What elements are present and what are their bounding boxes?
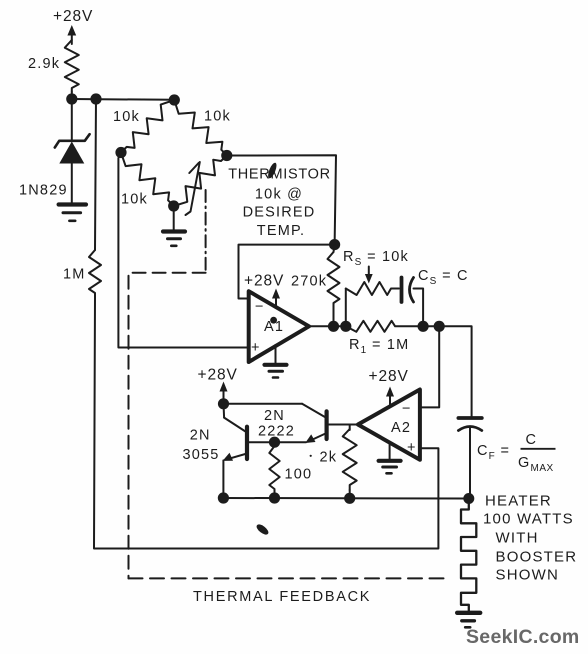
heater element bbox=[461, 499, 476, 612]
thermistor RT bridge bottom-right bbox=[174, 156, 227, 216]
wire node to zener bbox=[71, 99, 73, 141]
wire node down to A2 minus bbox=[420, 326, 439, 407]
resistor R1 1M bbox=[346, 321, 423, 332]
resistor R 2.9k bbox=[65, 40, 79, 92]
svg-text:10k: 10k bbox=[121, 192, 148, 208]
resistor 2k bbox=[343, 425, 357, 499]
svg-text:2N: 2N bbox=[264, 408, 285, 424]
node output line bbox=[434, 321, 445, 332]
transistor Q2 2N2222 bbox=[302, 404, 327, 443]
resistor bridge 10k top-left bbox=[121, 100, 174, 153]
bridge node left bbox=[115, 147, 126, 158]
capacitor Cs bbox=[402, 278, 424, 327]
node A1 output bbox=[328, 321, 339, 332]
op-amp A2 (left pointing) bbox=[358, 390, 420, 460]
ground below bridge bbox=[163, 206, 185, 246]
node rail left bbox=[218, 492, 229, 503]
dash-dot thermistor coupling line bbox=[205, 190, 207, 273]
ground below A1 bbox=[265, 345, 287, 378]
+28V arrow transistors bbox=[220, 382, 228, 404]
op-amp A2 +28V arrow bbox=[386, 387, 394, 408]
ink blob on THERMISTOR M bbox=[266, 162, 278, 180]
svg-text:+28V: +28V bbox=[369, 368, 409, 385]
wire up to Rs bbox=[345, 289, 347, 327]
wire bridge right node to node A bbox=[227, 155, 336, 244]
bridge node bottom bbox=[168, 200, 179, 211]
svg-text:100: 100 bbox=[285, 467, 313, 483]
svg-text:2N: 2N bbox=[190, 428, 211, 444]
node 100 top bbox=[269, 437, 280, 448]
wire 1M down to feedback run bbox=[94, 297, 438, 549]
supply +28V top arrow bbox=[67, 25, 76, 44]
bridge node top bbox=[169, 94, 180, 105]
svg-text:2.9k: 2.9k bbox=[28, 56, 60, 72]
bridge node right bbox=[221, 150, 232, 161]
svg-text:−: − bbox=[402, 401, 412, 417]
wire Q2 emitter to Q1 base bbox=[247, 441, 306, 443]
emitter rail wire bbox=[223, 497, 468, 500]
dashed thermal feedback bottom line bbox=[129, 577, 451, 579]
svg-text:WITH: WITH bbox=[496, 530, 539, 547]
svg-text:SeekIC.com: SeekIC.com bbox=[466, 626, 580, 648]
op-amp A1 +28V arrow bbox=[272, 289, 280, 309]
svg-text:HEATER: HEATER bbox=[485, 493, 552, 510]
op-amp A1 bbox=[249, 291, 309, 362]
svg-text:2k: 2k bbox=[320, 450, 338, 466]
svg-text:270k: 270k bbox=[291, 274, 327, 290]
svg-text:10k: 10k bbox=[113, 109, 140, 125]
svg-text:1N829: 1N829 bbox=[19, 183, 68, 199]
node heater top bbox=[463, 493, 474, 504]
svg-text:1M: 1M bbox=[63, 267, 86, 283]
svg-text:BOOSTER: BOOSTER bbox=[496, 549, 578, 566]
node R1/Rs left bbox=[340, 321, 351, 332]
wire R1 node to CF branch bbox=[423, 326, 472, 417]
svg-text:10k @: 10k @ bbox=[255, 186, 303, 202]
resistor bridge 10k bottom-left bbox=[121, 153, 174, 207]
resistor 270k feedback bbox=[328, 245, 340, 327]
wire node A to A1 minus input bbox=[239, 245, 335, 299]
svg-text:+: + bbox=[251, 340, 261, 356]
svg-text:3055: 3055 bbox=[183, 447, 220, 463]
label THERMISTOR block bbox=[228, 167, 331, 240]
speck near 2k bbox=[310, 455, 312, 457]
dashed line to thermal feedback left bbox=[129, 273, 206, 579]
label 2N 2222 bbox=[258, 408, 295, 440]
node junction left supply bbox=[66, 93, 77, 104]
ink blob lower middle bbox=[255, 523, 270, 537]
wire 2.9k to node bbox=[71, 92, 73, 99]
svg-text:+: + bbox=[407, 440, 417, 456]
resistor 100 bbox=[269, 442, 279, 498]
label CF = C/GMAX bbox=[477, 432, 556, 474]
node +28V transistors bbox=[218, 398, 229, 409]
wire 1M tap down bbox=[95, 99, 96, 250]
wire +28V node to Q2 collector bbox=[224, 403, 303, 405]
ground below heater bbox=[457, 613, 480, 628]
ink blob near A1 bbox=[270, 317, 277, 324]
svg-text:A1: A1 bbox=[264, 319, 284, 335]
node rail 100 bbox=[269, 492, 280, 503]
wire A2 output to base bbox=[329, 424, 358, 426]
resistor Rs 10k bbox=[346, 282, 399, 295]
svg-text:−: − bbox=[255, 299, 265, 315]
zener diode D1 1N829 bbox=[55, 134, 90, 202]
ground below A2 bbox=[379, 442, 401, 473]
label 2N 3055 bbox=[183, 428, 220, 463]
transistor Q1 2N3055 bbox=[223, 404, 247, 498]
svg-text:C: C bbox=[526, 432, 538, 448]
wire supply rail to bridge top bbox=[72, 98, 175, 101]
svg-text:DESIRED: DESIRED bbox=[243, 204, 316, 220]
svg-text:2222: 2222 bbox=[258, 424, 295, 440]
resistor 1M bbox=[89, 250, 101, 297]
wire bridge left node to A1 plus input bbox=[118, 153, 248, 348]
node junction 1M tap bbox=[90, 93, 101, 104]
svg-text:THERMAL FEEDBACK: THERMAL FEEDBACK bbox=[193, 589, 371, 605]
node R1 right bbox=[418, 321, 429, 332]
resistor bridge 10k top-right bbox=[174, 100, 227, 156]
svg-text:A2: A2 bbox=[391, 420, 411, 436]
node A (summing node) bbox=[329, 239, 340, 250]
svg-text:+28V: +28V bbox=[244, 272, 284, 289]
wire A1 output bbox=[309, 325, 346, 327]
svg-text:TEMP.: TEMP. bbox=[257, 223, 305, 239]
capacitor CF bbox=[458, 418, 481, 499]
node rail 2k bbox=[344, 493, 355, 504]
svg-text:SHOWN: SHOWN bbox=[496, 567, 560, 584]
svg-text:+28V: +28V bbox=[198, 366, 238, 383]
ground below zener bbox=[59, 205, 86, 221]
label HEATER block bbox=[483, 493, 577, 584]
svg-text:100 WATTS: 100 WATTS bbox=[483, 511, 574, 528]
svg-text:THERMISTOR: THERMISTOR bbox=[228, 167, 331, 183]
svg-text:+28V: +28V bbox=[53, 8, 93, 25]
svg-text:10k: 10k bbox=[204, 109, 231, 125]
arrow onto Rs (trimmer) bbox=[365, 267, 373, 284]
